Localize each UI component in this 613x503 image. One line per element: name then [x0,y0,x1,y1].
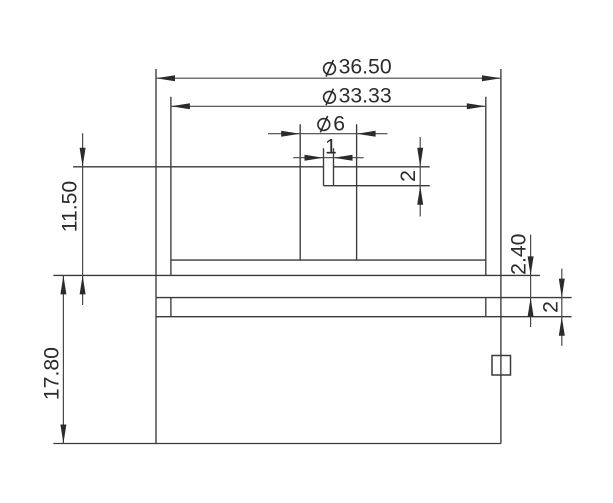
svg-text:11.50: 11.50 [59,181,82,232]
svg-text:17.80: 17.80 [41,347,64,400]
svg-text:2: 2 [540,301,563,313]
svg-text:6: 6 [333,112,345,135]
svg-text:2: 2 [397,170,420,182]
svg-text:33.33: 33.33 [339,84,392,107]
svg-text:2.40: 2.40 [508,234,531,275]
svg-text:36.50: 36.50 [339,56,392,79]
svg-text:1: 1 [325,136,337,159]
